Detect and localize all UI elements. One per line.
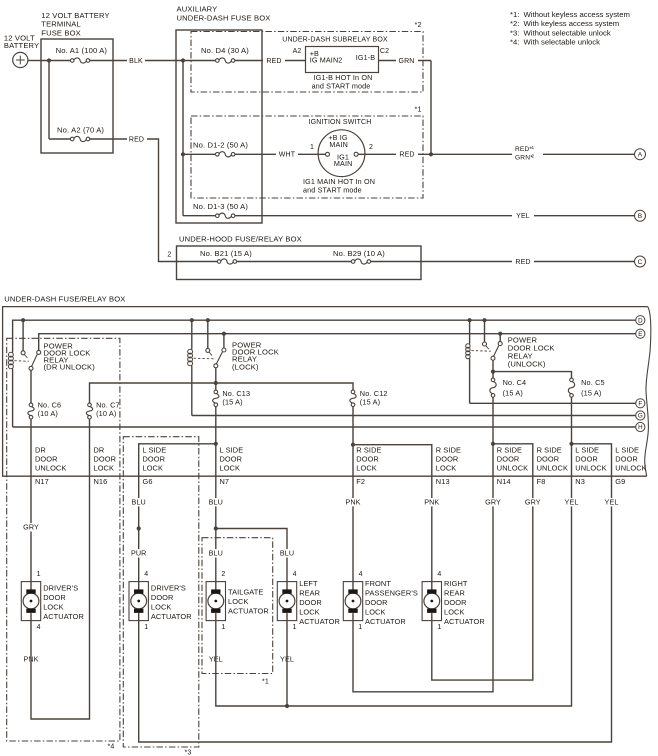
wire RED from ignition [358,153,431,155]
wire K3 NO lead [499,334,501,342]
svg-text:N3: N3 [575,477,585,486]
relay K3 coil [469,342,471,344]
under-hood fuse/relay box [177,246,422,280]
node C13 cell junction [214,442,218,446]
wire RED from A2 to under-hood box [113,139,177,262]
node left rear return junction [285,704,289,708]
under-dash fuse/relay box outline [3,307,648,477]
connector D [636,316,645,325]
svg-text:YEL: YEL [516,213,530,220]
svg-text:1: 1 [358,624,362,631]
svg-text:ACTUATOR: ACTUATOR [151,612,192,621]
svg-text:A2: A2 [293,48,302,55]
svg-text:N7: N7 [220,477,230,486]
wire YEL to connector B [262,215,635,217]
svg-text:LOCK: LOCK [228,597,249,606]
wire RED to connector C [421,261,635,263]
svg-text:4: 4 [359,571,363,578]
wire A2 row inside box [49,138,113,140]
svg-text:No. A1 (100 A): No. A1 (100 A) [56,46,108,55]
under-dash box wavy right edge [645,307,651,477]
driver's door lock actuator M2 [129,582,148,621]
svg-text:F2: F2 [356,477,365,486]
node C4 cell junction [491,442,495,446]
svg-text:B: B [638,213,643,220]
svg-text:2: 2 [532,153,535,158]
svg-text:No. C5: No. C5 [581,378,605,387]
svg-text:2: 2 [167,252,171,259]
svg-text:No. B29 (10 A): No. B29 (10 A) [333,249,385,258]
wire A1 row inside box [41,60,113,62]
svg-text:(15 A): (15 A) [581,389,601,398]
label RED (A2 output) [127,134,147,144]
svg-text:N14: N14 [497,477,511,486]
svg-text:4: 4 [437,571,441,578]
svg-text:IG1-B: IG1-B [356,53,376,62]
svg-text:*2:: *2: [510,19,519,28]
relay IG MAIN2 box [306,47,379,73]
auxiliary under-dash fuse box [176,30,262,223]
svg-text:DR: DR [94,445,105,454]
svg-text:D: D [638,317,643,324]
svg-text:AUXILIARY: AUXILIARY [177,5,218,14]
svg-text:*1:: *1: [510,10,519,19]
svg-text:*1: *1 [415,105,422,114]
node ignition/GRN junction [429,152,433,156]
wire M4 return [286,621,288,706]
tailgate lock actuator M3 [206,582,225,621]
lock feed bus wire [90,383,354,403]
svg-text:UNLOCK: UNLOCK [575,464,606,473]
svg-text:YEL: YEL [605,497,619,506]
svg-text:DOOR: DOOR [43,593,66,602]
svg-text:BLK: BLK [129,58,143,65]
svg-text:*3: *3 [185,750,192,756]
bus E wire [39,334,636,351]
svg-text:MAIN: MAIN [329,140,348,149]
fuse D4 (30 A) [219,58,232,62]
svg-text:L SIDE: L SIDE [615,445,639,454]
wire K1 pivot to fuse C6 [30,370,32,403]
svg-text:ACTUATOR: ACTUATOR [228,607,269,616]
svg-text:FRONT: FRONT [365,579,391,588]
svg-text:DOOR: DOOR [220,455,243,464]
wire M3 return to N3 [216,476,572,706]
svg-text:REAR: REAR [299,589,320,598]
svg-text:L SIDE: L SIDE [220,445,244,454]
svg-text:1: 1 [310,144,314,151]
svg-text:No. D4 (30 A): No. D4 (30 A) [201,46,249,55]
label GRN [396,56,418,66]
svg-text:DOOR: DOOR [444,598,467,607]
svg-text:DOOR: DOOR [365,598,388,607]
svg-text:LOCK: LOCK [365,608,386,617]
svg-text:PASSENGER'S: PASSENGER'S [365,589,418,598]
wire BLK to auxiliary box [113,60,176,62]
svg-text:ACTUATOR: ACTUATOR [365,617,406,626]
svg-text:With selectable unlock: With selectable unlock [524,38,601,47]
wire K2 pivot to lock bus [215,368,217,383]
bus H wire [13,426,636,428]
svg-text:L SIDE: L SIDE [575,445,599,454]
connector G [636,411,645,420]
node bus D to K1 common [21,318,25,322]
fuse B29 (10 A) [354,259,367,263]
svg-text:Without keyless access system: Without keyless access system [524,10,630,19]
svg-text:LOCK: LOCK [356,464,377,473]
wire C5 to cell junction [571,397,573,444]
wire branch to G9 exit [572,444,612,476]
node aux feed junction top [181,58,185,62]
wire GRN from subrelay [379,60,432,62]
fuse C13 (15 A) [214,390,218,394]
svg-text:WHT: WHT [279,152,296,159]
svg-text:DOOR: DOOR [299,598,322,607]
node lock bus junction [214,381,218,385]
svg-text:G9: G9 [615,477,625,486]
bus F wire [470,402,636,404]
svg-text:DOOR: DOOR [35,455,58,464]
svg-text:RED: RED [129,136,144,143]
label WHT [276,149,298,159]
svg-text:LEFT: LEFT [299,579,318,588]
relay K1 coil [12,351,14,353]
svg-text:RIGHT: RIGHT [444,579,468,588]
node bus D to K3 common [482,318,486,322]
svg-text:1: 1 [437,624,441,631]
svg-text:LOCK: LOCK [220,464,241,473]
label BLK [127,56,145,66]
svg-text:IG1-B HOT In ON: IG1-B HOT In ON [314,73,373,82]
wire C13 to cell junction [215,407,217,444]
svg-text:DR: DR [35,445,46,454]
relay K2 coil [191,348,193,350]
svg-text:No. B21 (15 A): No. B21 (15 A) [200,249,252,258]
label BLU tailgate [208,549,224,557]
svg-text:*1: *1 [262,679,269,686]
wire C7 to N16 exit [89,419,91,476]
wire coil K1 to bus H [12,370,14,428]
svg-text:GRN*: GRN* [515,154,533,161]
svg-text:REAR: REAR [444,589,465,598]
svg-text:1: 1 [221,624,225,631]
connector E [636,329,645,338]
svg-text:*2: *2 [415,20,422,29]
relay K2 (LOCK) switch [206,348,210,352]
svg-text:F: F [638,401,642,408]
svg-text:1: 1 [532,145,535,150]
svg-text:(15 A): (15 A) [503,389,523,398]
svg-text:BLU: BLU [209,497,223,506]
svg-text:2: 2 [369,144,373,151]
label YEL G9 [604,498,620,506]
label PNK M1 [23,655,39,663]
relay K1 (DR UNLOCK) switch [21,351,25,355]
wire battery to terminal fuse box [28,60,41,62]
svg-text:(15 A): (15 A) [360,398,380,407]
svg-text:RED*: RED* [515,146,532,153]
svg-text:IGNITION SWITCH: IGNITION SWITCH [309,119,372,126]
svg-text:N17: N17 [35,477,49,486]
wire coil K2 to bus G [191,367,193,416]
svg-text:(10 A): (10 A) [38,409,58,418]
svg-text:IG1 MAIN HOT In ON: IG1 MAIN HOT In ON [303,177,375,186]
svg-text:A: A [638,152,643,159]
svg-text:BATTERY: BATTERY [4,41,39,50]
wire branch to F8 exit [493,444,533,476]
without keyless dash-dot box *1 [202,538,273,674]
svg-text:YEL: YEL [565,497,579,506]
node aux feed junction middle [181,152,185,156]
wire N7 exit [215,476,217,581]
wire lock bus to fuse C13 [215,383,217,390]
label PNK F2 [345,498,361,506]
battery 12V positive terminal [13,52,28,67]
svg-text:IG MAIN2: IG MAIN2 [310,56,343,65]
svg-text:*4:: *4: [510,38,519,47]
fuse C7 (10 A) [88,403,92,407]
svg-text:DOOR: DOOR [94,455,117,464]
wire C4 to cell junction [492,397,494,444]
wire N17 exit to actuator [30,476,32,581]
svg-text:(DR UNLOCK): (DR UNLOCK) [44,362,96,371]
svg-text:DRIVER'S: DRIVER'S [43,584,78,593]
svg-text:No. A2 (70 A): No. A2 (70 A) [57,126,104,135]
fuse A2 (70 A) [73,137,86,141]
svg-text:DOOR: DOOR [537,455,560,464]
node bus D to K2 common [206,318,210,322]
wire branch to G6 exit [139,444,216,476]
fuse B21 (15 A) [220,259,233,263]
svg-text:GRY: GRY [23,523,39,532]
label GRY F8 [525,498,541,506]
bus G wire [192,415,636,417]
svg-text:DOOR: DOOR [615,455,638,464]
svg-text:No. C4: No. C4 [503,378,527,387]
unlock feed bus wire [493,372,572,379]
svg-text:GRY: GRY [485,497,501,506]
svg-text:DOOR: DOOR [436,455,459,464]
12 volt battery terminal fuse box [41,39,113,153]
svg-text:GRY: GRY [525,497,541,506]
svg-text:ACTUATOR: ACTUATOR [444,617,485,626]
svg-text:UNLOCK: UNLOCK [537,464,568,473]
svg-text:N13: N13 [436,477,450,486]
wire to connector A [431,153,635,155]
relay K3 coil feed [468,318,472,322]
wire N13 exit [431,476,433,581]
svg-text:C: C [638,259,643,266]
wire K3 common lead [484,320,486,342]
svg-text:PNK: PNK [345,497,360,506]
label YEL [512,211,534,221]
svg-text:R SIDE: R SIDE [537,445,562,454]
svg-text:1: 1 [37,571,41,578]
label BLU G6 [131,498,147,506]
svg-text:N16: N16 [94,477,108,486]
svg-text:UNDER-HOOD FUSE/RELAY BOX: UNDER-HOOD FUSE/RELAY BOX [179,235,302,244]
fuse C12 (15 A) [351,390,355,394]
svg-text:TERMINAL: TERMINAL [41,20,81,29]
svg-text:UNDER-DASH SUBRELAY BOX: UNDER-DASH SUBRELAY BOX [282,37,388,44]
label BLU left rear [279,549,295,557]
svg-text:L SIDE: L SIDE [143,445,167,454]
svg-text:F8: F8 [537,477,546,486]
svg-text:and START mode: and START mode [312,82,371,91]
fuse A1 (100 A) [73,58,86,62]
relay K2 coil feed [190,318,194,322]
wire C13 to N7 exit [215,444,217,476]
wire D1-2 row [183,153,326,155]
wire unlock bus to fuse C4 [492,372,494,379]
fuse C5 (15 A) [570,378,574,382]
wire C12 to F2 exit [352,444,354,476]
svg-text:DOOR: DOOR [143,455,166,464]
svg-text:C2: C2 [380,48,389,55]
connector B [635,210,646,221]
svg-text:RED: RED [515,259,530,266]
svg-text:UNLOCK: UNLOCK [615,464,646,473]
svg-text:BLU: BLU [209,549,223,558]
wire D1-3 row [183,215,262,217]
label GRY N17 [23,523,39,531]
wire M2 return to G9 [139,476,612,742]
wire K1 common lead [22,320,24,351]
ignition pin 2 [354,152,358,156]
wire branch to N13 exit [353,445,432,477]
svg-text:LOCK: LOCK [143,464,164,473]
label RED*1 GRN*2 [512,145,543,162]
without selectable unlock dash-dot box *3 [123,437,199,747]
wire GRN down to ignition row [430,61,432,155]
svg-text:4: 4 [144,571,148,578]
svg-text:No. D1-3 (50 A): No. D1-3 (50 A) [193,202,248,211]
svg-text:(15 A): (15 A) [222,398,242,407]
label YEL N3 [564,498,580,506]
svg-text:*3:: *3: [510,28,519,37]
svg-text:2: 2 [221,571,225,578]
fuse D1-2 (50 A) [219,152,232,156]
svg-text:(UNLOCK): (UNLOCK) [508,360,546,369]
wire under-hood fuse row [177,261,422,263]
svg-text:H: H [638,424,642,431]
relay K3 (UNLOCK) switch [483,342,487,346]
svg-text:(10 A): (10 A) [96,409,116,418]
wire K2 NO lead [223,334,225,348]
svg-text:PNK: PNK [424,497,439,506]
label PUR G6 [131,549,147,557]
wire aux feed vertical [182,61,184,216]
svg-text:12 VOLT BATTERY: 12 VOLT BATTERY [41,11,109,20]
svg-text:BLU: BLU [132,497,146,506]
svg-text:MAIN: MAIN [334,159,353,168]
svg-text:DOOR: DOOR [356,455,379,464]
wire C4 to N14 exit [492,444,494,476]
svg-text:RED: RED [266,58,281,65]
svg-text:*4: *4 [108,744,115,751]
svg-text:ACTUATOR: ACTUATOR [43,612,84,621]
label GRY N14 [485,498,501,506]
svg-text:LOCK: LOCK [436,464,457,473]
svg-text:UNLOCK: UNLOCK [35,464,66,473]
svg-text:BLU: BLU [280,549,294,558]
wire K2 common lead [207,320,209,348]
wire junction down to A2 [48,61,50,140]
svg-text:ACTUATOR: ACTUATOR [299,617,340,626]
wire coil K3 to bus F [469,360,471,404]
front passenger's door lock actuator M5 [343,582,362,621]
svg-text:1: 1 [293,624,297,631]
wire C5 to N3 exit [571,444,573,476]
svg-text:PUR: PUR [131,549,146,558]
svg-text:and START mode: and START mode [303,186,362,195]
svg-text:R SIDE: R SIDE [436,445,461,454]
svg-text:DRIVER'S: DRIVER'S [151,584,186,593]
svg-text:LOCK: LOCK [94,464,115,473]
wire M1 return to N16 [31,476,90,719]
wire G6 exit [138,476,140,581]
svg-text:E: E [638,331,642,338]
svg-text:No. D1-2 (50 A): No. D1-2 (50 A) [193,141,248,150]
label PNK N13 [424,498,440,506]
label YEL tailgate [208,655,224,663]
fuse C6 (10 A) [29,403,33,407]
svg-text:UNDER-DASH FUSE BOX: UNDER-DASH FUSE BOX [177,13,271,22]
label BLU N7 [208,498,224,506]
svg-text:RED: RED [399,152,414,159]
wire C6 to N17 exit [30,419,32,476]
connector H [636,422,645,431]
keyless dash-dot box *2 [191,32,423,93]
node battery feed junction [47,58,51,62]
node C5 cell junction [569,442,573,446]
svg-text:With keyless access system: With keyless access system [524,19,620,28]
label RED (ignition output) [396,149,418,159]
fuse C4 (15 A) [491,378,495,382]
label RED (to C) [512,257,534,267]
svg-text:LOCK: LOCK [151,603,172,612]
ignition pin 1 [326,152,330,156]
node bus E to K3 NO contact [498,332,502,336]
ignition dash-dot box *1 [191,116,423,198]
selectable unlock dash-dot box *4 [7,338,120,741]
node bus E to K2 NO contact [222,332,226,336]
svg-text:G: G [638,413,643,420]
svg-text:UNLOCK: UNLOCK [497,464,528,473]
svg-text:Without selectable unlock: Without selectable unlock [524,28,611,37]
bus D wire [13,320,636,351]
node N7 splice [214,526,218,530]
svg-text:FUSE BOX: FUSE BOX [41,28,81,37]
svg-text:LOCK: LOCK [299,608,320,617]
ignition switch circle [318,130,365,177]
connector C [635,256,646,267]
label YEL left rear [279,655,295,663]
svg-text:DOOR: DOOR [575,455,598,464]
svg-text:R SIDE: R SIDE [356,445,381,454]
node C12 cell junction [351,443,355,447]
label RED (D4 output) [263,56,285,66]
svg-text:LOCK: LOCK [43,603,64,612]
svg-text:GRN: GRN [398,58,414,65]
wire main feed inside aux box [176,60,306,62]
wire C12 to cell junction [352,407,354,444]
connector F [636,399,645,408]
connector A [635,149,646,160]
svg-text:4: 4 [37,624,41,631]
fuse D1-3 (50 A) [219,214,232,218]
driver's door lock actuator M1 [21,582,40,621]
